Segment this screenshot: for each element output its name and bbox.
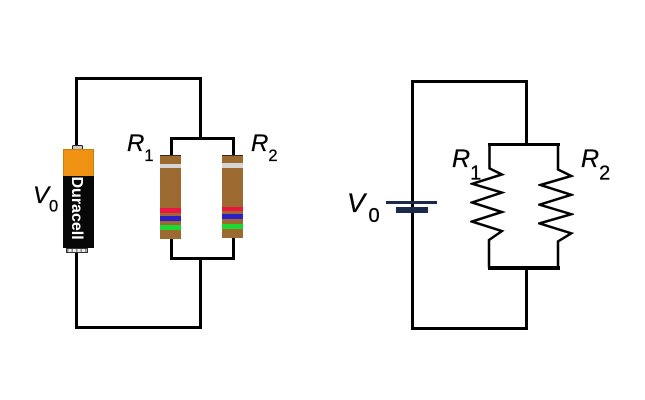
wire: vertical from bottom rail down to bottom run [199, 257, 202, 329]
wire: right vertical from inner bottom rail down to bottom wire [525, 266, 528, 329]
negative terminal cap [66, 248, 88, 253]
wire: inner bottom rail joining R1 and R2 [488, 266, 560, 269]
wire: bottom horizontal run of outer loop [411, 327, 527, 330]
wire: bottom rail of parallel combination [170, 257, 235, 260]
label R_2 (right circuit) [581, 147, 610, 183]
battery V0 (Duracell cell) [61, 144, 97, 256]
label R_1 (left circuit) [127, 132, 154, 165]
copper-orange top of cell [63, 149, 94, 177]
wire: top horizontal run of outer loop [411, 80, 527, 83]
wire: top rail of parallel combination [170, 137, 235, 140]
resistor R1 (pictorial body with colour bands) [160, 155, 181, 239]
resistor R2 (zigzag symbol) [538, 138, 574, 271]
wire: stub from resistor R1 bottom lead down to bottom rail [170, 239, 173, 260]
wire: top horizontal run of outer loop [75, 77, 202, 80]
Duracell brand text (rotated) [63, 178, 93, 241]
wire: inner top rail feeding R1 and R2 [488, 143, 560, 146]
wire: left vertical run through battery position [411, 80, 414, 330]
label R_1 (right circuit) [452, 147, 481, 183]
battery V0 symbol: long positive plate [386, 201, 437, 204]
wire: stub from top rail down to resistor R1 top lead [170, 137, 173, 156]
wire: stub from top rail down to resistor R2 top lead [232, 137, 235, 156]
label V_0 (left circuit) [33, 184, 58, 215]
wire: battery positive terminal up to top-left corner [75, 77, 78, 146]
wire: stub from resistor R2 bottom lead down to bottom rail [232, 238, 235, 260]
wire: bottom horizontal run of outer loop [75, 326, 202, 329]
positive button terminal [72, 145, 83, 150]
battery V0 symbol: short thick negative plate [396, 207, 429, 212]
resistor R1 (zigzag symbol) [470, 138, 506, 271]
label R_2 (left circuit) [251, 132, 278, 165]
resistor R2 (pictorial body with colour bands) [222, 155, 243, 238]
wire: right vertical drop from top wire to parallel top rail [199, 77, 202, 140]
wire: battery negative terminal down to bottom wire [75, 252, 78, 329]
label V_0 (right circuit) [347, 190, 380, 226]
wire: right vertical from top wire down to inner top rail [525, 80, 528, 146]
black body of cell [63, 176, 94, 248]
